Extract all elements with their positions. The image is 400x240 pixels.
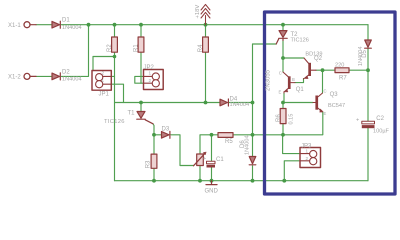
svg-text:R2: R2 [107,44,113,52]
svg-text:TIC126: TIC126 [291,38,309,44]
junction C1 GND rail [210,179,214,183]
wire Q1 emitter to H3 junction [283,93,285,103]
svg-text:E: E [279,90,282,95]
svg-text:Q1: Q1 [296,87,305,93]
svg-text:1: 1 [102,78,105,83]
svg-text:1N4004: 1N4004 [358,46,364,66]
resistor R5 [218,133,233,138]
junction rail-R4 supply [204,23,208,27]
wire X1-2 to D2 [36,75,52,77]
wire T2 gate net left and gate column [253,44,277,157]
wire node to Q1 collector [282,58,284,72]
wire R4 lead upper [205,25,207,37]
svg-text:1: 1 [149,71,152,76]
junction rail-T2 [281,23,285,27]
wire R7 to D5 column [349,69,368,71]
supply +18V symbol [201,4,210,24]
svg-text:BD139: BD139 [305,51,322,57]
diode D2 [52,73,60,80]
diode D1 [52,21,60,28]
junction JP3 pin2 rail [282,179,286,183]
diode D5 [365,40,372,48]
resistor R2 [112,37,118,52]
junction H7 gate column [251,133,255,137]
wire R1 lead to JP2 [140,52,142,83]
junction H3 gate column [251,101,255,105]
svg-text:B: B [292,77,295,82]
svg-text:GND: GND [205,189,219,195]
thyristor T2 [276,31,287,44]
junction T1 anode on H3 [139,101,143,105]
wire R4 lead lower to H3 [205,52,207,102]
junction trimmer bottom rail [198,179,202,183]
wire R1 lead upper [140,25,142,37]
terminal X1-1 [24,22,30,28]
wire junction to D3 [154,134,162,136]
svg-text:1N4004: 1N4004 [62,77,82,83]
svg-text:BC547: BC547 [328,103,345,109]
jumper JP1 [92,71,111,91]
svg-text:D3: D3 [162,127,170,133]
diode D6 [249,157,256,165]
svg-text:T1: T1 [128,111,136,117]
capacitor C1 [203,156,215,168]
svg-text:2: 2 [149,78,152,83]
wire H3 right Q3 base [283,102,313,104]
terminal X1-2 [24,73,30,79]
wire D6 bottom lead [252,166,254,181]
junction D6 bottom rail [251,179,255,183]
resistor R3 [151,154,157,168]
wire D3 to trimmer wiper [171,135,194,166]
resistor R7 [335,68,349,73]
wire H7 trimmer top to R5 [200,135,218,154]
svg-text:C1: C1 [216,157,224,163]
thyristor T1 [137,112,153,124]
diode D4 [220,99,228,106]
svg-text:220: 220 [335,63,344,69]
junction rail-R1 [139,23,143,27]
svg-text:0.15: 0.15 [289,114,295,125]
wire D5 to C2 [367,49,369,122]
svg-text:D2: D2 [62,69,70,75]
svg-text:1N4004: 1N4004 [244,135,250,155]
wire JP1 pin1 to H3 [111,84,123,102]
junction C1 top [210,133,214,137]
wire Q1 base to Q2 emitter [295,79,304,83]
svg-text:E: E [324,111,327,116]
wire Q3 emitter to R6 bottom junction [283,112,323,134]
junction Q1 emitter R6 top [281,101,285,105]
svg-text:R6: R6 [276,114,282,122]
wire R3 leads [153,135,155,181]
svg-text:1N4004: 1N4004 [230,102,250,108]
wire H7 R5 to R6 junction [233,134,283,136]
junction R2 column JP1 feed [113,55,117,59]
diode D3 [162,131,170,138]
svg-text:+: + [356,118,359,124]
wire T1 anode [140,103,142,112]
resistor R6 [280,109,286,124]
junction rail-R2 [113,23,117,27]
resistor R4 [203,37,209,52]
junction R7 D5 node [366,68,370,72]
wire trimmer bottom [199,166,201,181]
junction T2 cathode node [281,56,285,60]
resistor R1 [138,37,144,52]
junction R3 bottom rail [152,179,156,183]
wire T1 gate net [153,124,154,135]
junction R6 bottom [281,133,285,137]
junction R4 on H3 [204,101,208,105]
wire JP3 pin2 net to bottom rail [284,161,300,181]
wire JP1 pin2 stub tail [111,75,114,77]
svg-text:2: 2 [102,71,105,76]
wire Q2 base to R7 [316,69,335,71]
wire H3 left (JP1 to D4) [115,102,221,104]
junction Q2 base node [321,68,325,72]
wire D5 column from rail [367,25,369,40]
ground symbol GND [206,181,217,185]
svg-text:100µF: 100µF [373,128,390,134]
svg-text:+: + [203,156,206,162]
wire JP2 pin stubs left [135,76,144,83]
svg-text:X1-2: X1-2 [8,75,21,81]
capacitor C2 [356,118,375,129]
wire C1 leads [211,135,213,181]
transistor Q2 [304,58,317,79]
wire Q3 collector riser [322,70,324,93]
svg-text:R4: R4 [198,44,204,52]
wire JP1 feed from R2 column [93,57,115,71]
wire R6 top lead [282,103,284,109]
svg-text:R5: R5 [225,139,233,145]
svg-text:2N3055: 2N3055 [266,69,272,91]
svg-text:D1: D1 [62,18,70,24]
svg-text:Q3: Q3 [330,92,339,98]
svg-text:TIC126: TIC126 [104,119,125,125]
wire T2 anode [282,25,284,31]
wire top rail [61,24,368,26]
wire R2 column rail to bottom rail [114,25,116,181]
svg-text:1: 1 [306,149,309,154]
wire bottom rail [115,180,369,182]
wire JP3 pin1 net [283,135,300,154]
svg-text:R3: R3 [146,160,152,168]
svg-text:R1: R1 [134,44,140,52]
svg-text:1N4004: 1N4004 [62,25,82,31]
junction T1 gate D3 R3 [152,133,156,137]
jumper JP3 [300,148,321,168]
jumper JP2 [144,70,164,90]
wire R6 bottom lead [282,124,284,135]
svg-text:C2: C2 [376,116,384,122]
wire C2 bottom to rail [367,128,369,181]
wire H3 D4 to gate column [229,102,252,104]
svg-text:C: C [324,89,327,94]
svg-text:R7: R7 [339,76,347,82]
svg-text:X1-1: X1-1 [8,23,21,29]
svg-text:+18V: +18V [195,5,201,19]
junction rail-D2 [87,23,91,27]
transistor Q3 [313,93,323,112]
wire D2 output up to rail [61,25,88,77]
transistor Q1 [283,72,295,93]
wire node to Q2 collector [283,57,304,59]
wire T2 cathode to node [282,40,284,58]
svg-text:JP1: JP1 [99,92,110,98]
highlight blue box [265,12,396,194]
wire X1-1 to D1 [36,24,52,26]
trimmer R8 [194,152,207,166]
svg-text:C: C [279,71,282,76]
svg-text:2: 2 [306,156,309,161]
